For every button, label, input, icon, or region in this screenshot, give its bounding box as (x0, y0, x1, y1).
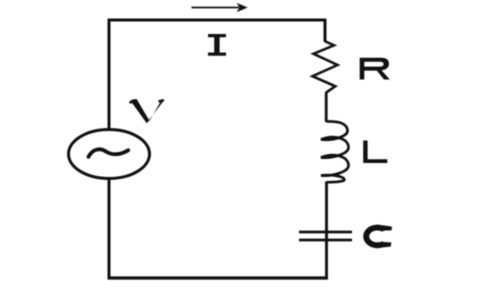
label R (360, 58, 390, 80)
capacitor top plate (299, 231, 352, 234)
label V (130, 100, 164, 123)
label C (363, 225, 392, 249)
wire left vertical upper (108, 19, 111, 131)
wire bottom horizontal (108, 276, 329, 279)
wire inductor-capacitor (325, 182, 328, 241)
label L (363, 141, 387, 164)
current arrow (192, 7, 240, 9)
ac source sine tilde (89, 149, 129, 156)
capacitor bottom plate (299, 239, 352, 242)
wire capacitor-bottom (325, 241, 328, 280)
wire resistor-inductor (325, 92, 328, 122)
resistor R (313, 41, 338, 93)
wire left vertical lower (108, 179, 111, 280)
ac source V1 (69, 130, 150, 179)
wire top horizontal (109, 19, 325, 22)
inductor L (321, 121, 349, 182)
label I (208, 34, 226, 56)
wire right top (324, 19, 327, 42)
